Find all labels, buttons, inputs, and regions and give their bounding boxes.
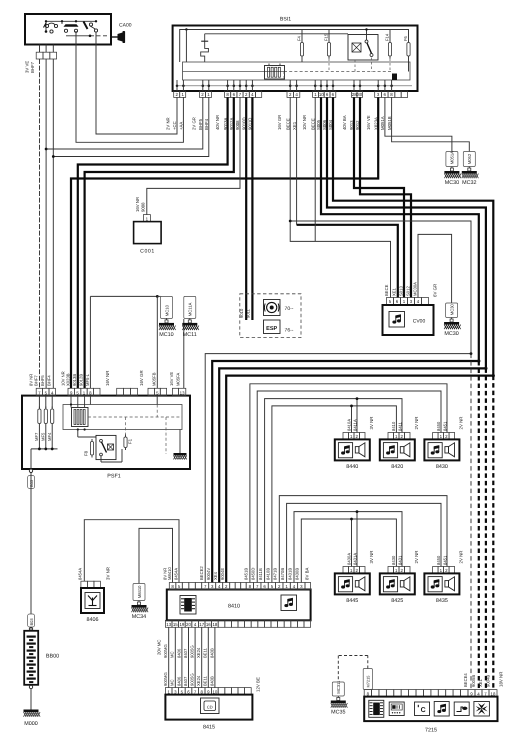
wire 9011 : BSI1 to ABS/ESP	[251, 97, 253, 320]
svg-text:XE1: XE1	[392, 287, 397, 296]
svg-text:MF4: MF4	[47, 432, 52, 441]
svg-text:M8410: M8410	[167, 567, 172, 580]
7215 ventilation icon	[474, 702, 490, 717]
ground MC30 (top)	[446, 152, 458, 167]
BSI1 internal terminal block	[392, 74, 397, 81]
svg-text:8450: 8450	[436, 555, 441, 565]
svg-text:8411: 8411	[397, 421, 402, 431]
svg-text:8445: 8445	[346, 598, 358, 604]
wire 8431B/8431A/8431 : radio to 8445/8425 pin2	[294, 512, 402, 583]
CA00 internal link to plug	[66, 35, 90, 37]
wire M05FB : PSF1 pin5 up	[156, 296, 158, 388]
wire 8471B : radio to 8435 pin2	[279, 496, 447, 583]
CA00 switch 1	[45, 24, 48, 27]
wire 8451B : radio to 8430 pin2	[250, 384, 447, 583]
wire B03 : PSF1 to battery	[30, 473, 32, 615]
svg-text:8406: 8406	[87, 617, 99, 623]
connector C001	[143, 215, 150, 222]
column 3 dashed to 7215	[485, 368, 487, 689]
wire MF5-L / MC10 link	[90, 295, 157, 297]
svg-text:MF5: MF5	[41, 432, 46, 441]
svg-text:8406: 8406	[176, 676, 181, 686]
svg-text:8430A: 8430A	[346, 553, 351, 565]
7215 chip icon	[369, 700, 384, 717]
svg-text:2V NR: 2V NR	[414, 417, 419, 430]
steering wheel control CV00	[387, 298, 394, 305]
svg-text:8410: 8410	[391, 421, 396, 431]
svg-text:BE11: BE11	[203, 675, 208, 686]
svg-text:20V MC: 20V MC	[157, 639, 162, 655]
svg-text:17: 17	[199, 622, 204, 627]
svg-text:CV00: CV00	[413, 319, 426, 325]
BSI1 internal connector symbol	[265, 66, 285, 80]
ground MC11	[184, 296, 196, 318]
svg-text:3V NR: 3V NR	[369, 417, 374, 430]
svg-text:840B: 840B	[209, 648, 214, 658]
PSF1 fuse F1	[124, 437, 127, 448]
BSI1 internal top rail	[180, 30, 409, 63]
svg-text:M8410: M8410	[137, 585, 142, 598]
svg-text:9005G: 9005G	[190, 645, 195, 658]
car radio 8410	[167, 590, 311, 621]
svg-text:18: 18	[491, 691, 496, 696]
wire 8410B/8410A/8410 : radio to 8440/8420 pin1	[272, 406, 397, 583]
svg-text:2V NR: 2V NR	[166, 117, 171, 130]
diagnostic plug of CA00	[111, 36, 118, 38]
loudspeaker 8425	[388, 567, 394, 574]
svg-text:M051B: M051B	[387, 116, 392, 130]
wire BHF7 : CA00 to PSF1	[39, 59, 41, 388]
svg-text:8407: 8407	[183, 676, 188, 686]
7215 phone icon	[454, 702, 469, 716]
wire M7215 dashed to ground MC35	[363, 669, 372, 690]
wire S004 : BSI1 to column 4	[333, 97, 493, 375]
svg-text:BHF7: BHF7	[33, 375, 38, 386]
BSI1 internal breaker glyph	[205, 33, 348, 35]
svg-text:16V GR: 16V GR	[139, 370, 144, 386]
svg-text:9011: 9011	[245, 308, 250, 318]
svg-text:40V NR: 40V NR	[215, 115, 220, 130]
wire 9013 : BSI1 to CV00 pin1	[354, 97, 404, 297]
svg-text:XE1: XE1	[478, 678, 483, 687]
svg-text:16: 16	[206, 622, 211, 627]
svg-text:8454A: 8454A	[174, 568, 179, 580]
svg-text:MF7: MF7	[34, 432, 39, 441]
svg-text:2V NR: 2V NR	[414, 551, 419, 564]
svg-text:XE24: XE24	[196, 647, 201, 658]
svg-text:MC32: MC32	[462, 180, 476, 186]
svg-text:8431: 8431	[397, 555, 402, 565]
svg-text:M05FA: M05FA	[176, 373, 181, 386]
wire 9004E : radio to column 4	[226, 376, 493, 583]
svg-text:8410B: 8410B	[265, 568, 270, 580]
svg-text:6V GR: 6V GR	[433, 284, 438, 297]
svg-text:9005G: 9005G	[190, 673, 195, 686]
svg-text:16V GR: 16V GR	[277, 115, 282, 130]
fuse F4	[300, 43, 303, 57]
svg-text:8430: 8430	[436, 464, 448, 470]
svg-text:9012B: 9012B	[79, 374, 84, 386]
svg-text:BHF4: BHF4	[47, 375, 52, 386]
svg-text:BHF4: BHF4	[204, 118, 209, 130]
svg-text:BECE: BECE	[310, 118, 315, 130]
ABS / ESP control unit (dashed)	[240, 294, 301, 338]
PSF1 fuse MF5	[45, 396, 47, 408]
svg-text:M051A: M051A	[450, 151, 455, 164]
fuse F6	[407, 43, 410, 57]
svg-text:10: 10	[319, 92, 324, 97]
svg-text:9004V: 9004V	[206, 568, 211, 580]
wire M051A : BSI1 to ground MC30	[385, 97, 452, 151]
PSF1 pins	[36, 388, 42, 395]
svg-text:BSI1: BSI1	[280, 17, 291, 23]
svg-text:8430: 8430	[391, 555, 396, 565]
svg-text:PSF1: PSF1	[107, 474, 120, 480]
svg-text:MC311: MC311	[336, 680, 341, 694]
svg-text:8451: 8451	[442, 421, 447, 431]
wire MC30A : CV00 pin4 to ground MC30	[418, 234, 452, 303]
svg-text:MC11A: MC11A	[188, 302, 193, 316]
column 2 dashed to 7215	[478, 361, 480, 690]
loudspeaker 8440	[343, 433, 349, 440]
svg-text:3V VE: 3V VE	[25, 61, 30, 73]
wire 8430B/8430A/8430 : radio to 8445/8425 pin1	[301, 519, 396, 583]
column 1 dashed to 7215	[470, 354, 472, 690]
svg-text:BECE: BECE	[384, 284, 389, 296]
svg-text:840B: 840B	[209, 676, 214, 686]
wire BHF5 : CA00 / PSF1 / BSI1	[45, 59, 47, 388]
svg-text:F4: F4	[297, 35, 302, 41]
svg-text:+AA: +AA	[179, 122, 184, 130]
7215 temperature icon	[415, 702, 430, 716]
wire 8470B : radio to 8435 pin1	[287, 503, 441, 582]
svg-text:CD: CD	[207, 705, 213, 710]
svg-text:20: 20	[186, 622, 191, 627]
svg-text:8451B: 8451B	[243, 568, 248, 580]
svg-text:C: C	[421, 707, 426, 714]
svg-text:BECE4: BECE4	[463, 673, 468, 687]
svg-text:40V BA: 40V BA	[342, 115, 347, 130]
svg-text:M051A: M051A	[380, 116, 385, 130]
7215 audio icon	[434, 702, 449, 717]
fuse F15	[327, 43, 330, 57]
svg-text:8415: 8415	[203, 725, 215, 731]
svg-text:F6: F6	[403, 35, 408, 41]
svg-text:M052: M052	[467, 153, 472, 164]
wire 8454A : radio to antenna 8406	[84, 520, 179, 583]
svg-text:+CC: +CC	[172, 121, 177, 130]
svg-text:BECE: BECE	[285, 118, 290, 130]
svg-text:MC30: MC30	[445, 180, 459, 186]
PSF1 internal wires	[70, 396, 72, 408]
switch module CA00	[25, 14, 111, 45]
ground MC10	[161, 296, 173, 318]
wire 9004V : radio to column 2	[212, 361, 479, 583]
ground MC35	[332, 682, 344, 696]
svg-text:8451: 8451	[442, 555, 447, 565]
svg-text:8420: 8420	[391, 464, 403, 470]
wire 8411B/8411A/8411 : radio to 8440/8420 pin2	[265, 399, 402, 583]
svg-text:3V NR: 3V NR	[369, 551, 374, 564]
svg-text:M000: M000	[24, 721, 38, 727]
radio chip icon	[180, 596, 196, 615]
svg-text:S013: S013	[399, 286, 404, 296]
svg-text:MC11: MC11	[183, 332, 197, 338]
svg-text:2V NR: 2V NR	[459, 551, 464, 564]
svg-text:MC: MC	[170, 651, 175, 658]
svg-text:MC35: MC35	[331, 710, 345, 716]
svg-text:M05FB: M05FB	[151, 372, 156, 386]
column 4 dashed to 7215	[492, 376, 494, 690]
CA00 harness connector	[36, 52, 43, 59]
7215 display icon	[389, 702, 404, 716]
svg-text:C001: C001	[140, 249, 155, 255]
PSF1 inner unit	[63, 405, 182, 430]
loudspeaker 8420	[388, 433, 394, 440]
svg-text:16V VE: 16V VE	[366, 115, 371, 130]
svg-text:8450: 8450	[436, 421, 441, 431]
wire XE4 : radio to column 3	[219, 368, 486, 582]
antenna 8406	[81, 581, 88, 588]
svg-text:MC: MC	[170, 679, 175, 686]
svg-text:16V VE: 16V VE	[169, 372, 174, 386]
svg-text:8450D: 8450D	[251, 568, 256, 580]
radio top pins group 1	[169, 583, 176, 590]
svg-text:XE24: XE24	[196, 675, 201, 686]
svg-text:16V NR: 16V NR	[105, 371, 110, 386]
svg-text:2V GR: 2V GR	[191, 117, 196, 130]
svg-text:8411A: 8411A	[352, 419, 357, 431]
CA00 internal rail	[46, 21, 96, 31]
ground MC32	[463, 152, 475, 167]
svg-text:8440: 8440	[346, 464, 358, 470]
wire 9013A/9013B : BSI1 to PSF1	[78, 97, 228, 388]
svg-text:B03: B03	[29, 479, 34, 487]
PSF1 fuse MF7	[38, 396, 40, 408]
svg-text:8430B: 8430B	[295, 568, 300, 580]
CA00 switch 2	[64, 24, 79, 27]
wire S005 : BSI1 to column 2	[321, 97, 479, 361]
svg-text:F1: F1	[128, 438, 133, 444]
CA00 switch 3	[84, 22, 88, 30]
PSF1 inner connector symbol	[72, 408, 89, 427]
radio top pins group 3	[246, 583, 253, 590]
wire BECE (10V) down from BSI1	[314, 97, 316, 241]
svg-text:7215: 7215	[425, 728, 437, 734]
svg-text:MF5-L: MF5-L	[85, 373, 90, 386]
ground MC34	[133, 584, 145, 601]
svg-text:70--: 70--	[285, 306, 294, 312]
svg-text:MC10: MC10	[159, 332, 173, 338]
svg-text:2V NR: 2V NR	[459, 417, 464, 430]
svg-text:8471B: 8471B	[273, 568, 278, 580]
BSI1 internal dashed links	[283, 72, 285, 81]
wire M051B : BSI1 to ground MC32	[392, 97, 470, 151]
svg-text:8454A: 8454A	[78, 568, 83, 580]
wire X023A/X023B : BSI1 to PSF1	[71, 97, 378, 388]
svg-text:8411B: 8411B	[258, 568, 263, 580]
svg-text:BE11: BE11	[203, 647, 208, 658]
wire 9010 : BSI1 to ABS/ESP	[245, 97, 247, 320]
svg-text:10V NR: 10V NR	[302, 115, 307, 130]
svg-text:13: 13	[166, 622, 171, 627]
svg-text:9004B: 9004B	[485, 675, 490, 687]
svg-text:3V NR: 3V NR	[106, 567, 111, 580]
wire BECE2 : radio to column 1	[205, 354, 471, 583]
wire 9012 : BSI1 to CV00 pin3	[360, 97, 411, 297]
PSF1 relay F8	[96, 435, 116, 459]
wire +AA : CA00 to BSI1	[76, 31, 183, 142]
svg-text:18: 18	[212, 622, 217, 627]
ESP icon	[264, 320, 281, 334]
wire S006 : BSI1 to column 3	[327, 97, 486, 368]
svg-text:BHF5: BHF5	[40, 375, 45, 386]
svg-text:900MG: 900MG	[163, 672, 168, 686]
PSF1 internal ground	[179, 430, 181, 454]
svg-text:B03: B03	[29, 618, 34, 626]
wire M05FA : PSF1 pin13 up	[183, 319, 185, 388]
svg-text:12V BE: 12V BE	[256, 677, 261, 692]
relay in BSI1	[348, 35, 378, 61]
multifunction display 7215	[364, 690, 371, 697]
PSF1 fuse bus to B03	[38, 426, 40, 449]
ground M000	[30, 689, 32, 710]
svg-text:9008: 9008	[141, 202, 146, 212]
wire 9008 : BSI1 to C001	[147, 97, 240, 214]
svg-text:18V NR: 18V NR	[499, 672, 504, 687]
svg-text:8410A: 8410A	[346, 419, 351, 431]
svg-text:8406: 8406	[176, 648, 181, 658]
BSI1 internal bus junction dots	[176, 85, 179, 88]
control unit BSI1	[173, 26, 418, 92]
svg-text:9013B: 9013B	[72, 374, 77, 386]
svg-text:9010: 9010	[239, 308, 244, 318]
svg-text:X023B: X023B	[65, 373, 70, 386]
wire 8450D : radio to 8430 pin1	[257, 391, 441, 583]
svg-text:8470B: 8470B	[280, 568, 285, 580]
svg-text:BB00: BB00	[46, 654, 59, 660]
wire XE1 : BSI1 to CV00 pin6	[296, 97, 298, 224]
svg-text:9005B: 9005B	[471, 675, 476, 687]
PSF1 fuse MF4	[51, 396, 53, 408]
ground MC30 (near CV00)	[446, 303, 458, 318]
wire BECE : BSI1 to column 1 and CV00	[290, 97, 390, 297]
svg-text:F8: F8	[84, 450, 89, 456]
svg-text:30: 30	[357, 92, 362, 97]
radio bottom pins	[165, 620, 172, 627]
svg-text:8407: 8407	[183, 648, 188, 658]
node B03 at PSF1 output	[29, 469, 32, 472]
loudspeaker 8445	[343, 567, 349, 574]
wire BHF4	[52, 59, 54, 388]
svg-text:10: 10	[212, 689, 217, 694]
svg-text:S012: S012	[406, 286, 411, 296]
svg-text:19: 19	[179, 622, 184, 627]
svg-text:9008: 9008	[235, 120, 240, 130]
wire 9012A/9012B : BSI1 to PSF1	[85, 97, 234, 388]
svg-text:MC30: MC30	[449, 303, 454, 315]
CD changer 8415	[165, 688, 172, 695]
svg-text:XE1: XE1	[292, 121, 297, 130]
svg-text:BHF7: BHF7	[30, 61, 35, 73]
svg-text:900MG: 900MG	[163, 644, 168, 658]
loudspeaker 8430	[433, 433, 439, 440]
loudspeaker 8435	[433, 567, 439, 574]
svg-text:8410: 8410	[228, 604, 240, 610]
BSI1 bottom bus	[177, 85, 412, 87]
radio top pins group 2	[202, 583, 209, 590]
svg-text:F15: F15	[324, 33, 329, 41]
svg-text:XE4: XE4	[213, 571, 218, 580]
wires radio to CD changer 8415	[168, 627, 170, 687]
svg-text:15: 15	[173, 622, 178, 627]
wire M8410 : radio to ground MC34	[139, 528, 173, 583]
svg-text:M7215: M7215	[366, 676, 371, 688]
svg-text:16V NR: 16V NR	[135, 197, 140, 212]
wire +CC : CA00 to BSI1	[96, 32, 177, 135]
svg-text:76--: 76--	[285, 328, 294, 334]
svg-text:BHF5: BHF5	[198, 118, 203, 130]
svg-text:13: 13	[180, 390, 185, 395]
svg-text:9004E: 9004E	[220, 568, 225, 580]
svg-text:8431A: 8431A	[352, 553, 357, 565]
BSI1 internal connector strip	[183, 62, 411, 80]
engine fusebox PSF1	[22, 396, 190, 469]
svg-text:8425: 8425	[391, 598, 403, 604]
CD icon	[201, 698, 220, 714]
svg-text:8431B: 8431B	[287, 568, 292, 580]
battery BB00	[30, 627, 32, 631]
svg-text:MC10: MC10	[164, 304, 169, 316]
fuse F14	[388, 43, 391, 57]
svg-text:MC34: MC34	[132, 614, 146, 620]
BSI1 connector pins	[174, 91, 180, 97]
PSF1 relay wiring	[100, 456, 102, 462]
svg-text:CA00: CA00	[119, 23, 132, 29]
svg-text:MC30A: MC30A	[413, 282, 418, 296]
svg-text:BECE2: BECE2	[199, 566, 204, 580]
svg-text:8V BA: 8V BA	[304, 567, 309, 580]
ABS icon	[264, 300, 281, 316]
svg-text:MC30: MC30	[444, 331, 458, 337]
svg-text:ESP: ESP	[266, 326, 277, 332]
svg-text:8435: 8435	[436, 598, 448, 604]
svg-text:F14: F14	[385, 33, 390, 41]
